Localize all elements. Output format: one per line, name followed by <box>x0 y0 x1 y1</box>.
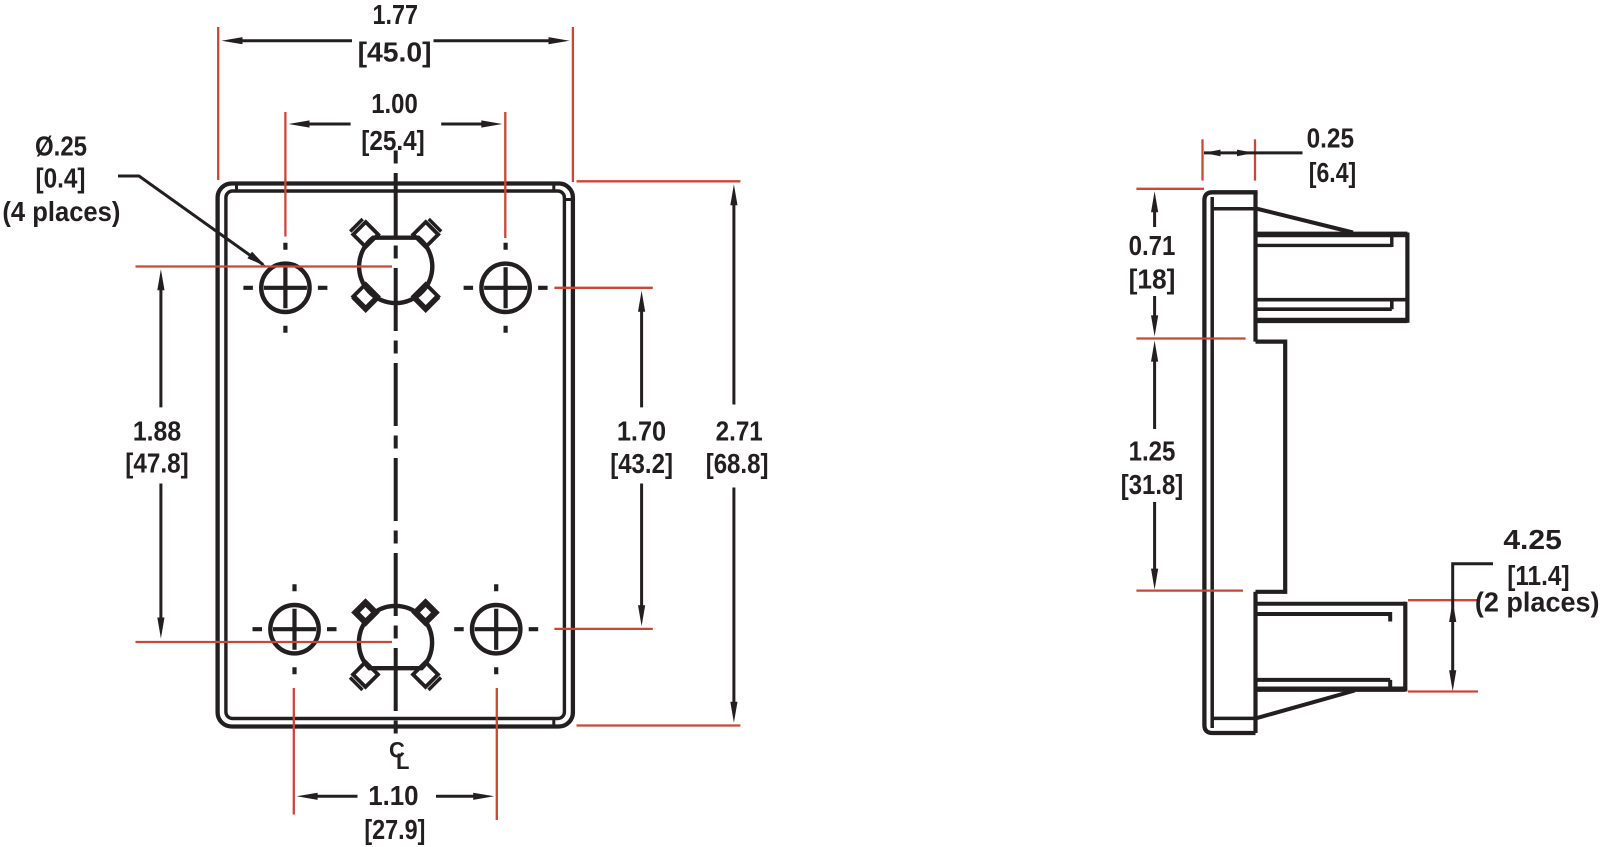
plate front view inner bend line <box>226 191 565 719</box>
red extension line 2.71 top <box>577 180 741 182</box>
svg-text:1.25: 1.25 <box>1129 435 1176 466</box>
top clip lower thin line 2 <box>1256 300 1392 310</box>
svg-text:1.00: 1.00 <box>371 88 418 119</box>
svg-text:[0.4]: [0.4] <box>36 162 86 193</box>
red extension line 1.10 right <box>496 688 498 820</box>
svg-text:0.71: 0.71 <box>1129 230 1176 261</box>
top clip thin line under band <box>1256 235 1392 247</box>
red extension line 1.00 right <box>504 112 506 238</box>
top clip thick top band <box>1256 232 1408 238</box>
dimension 4.25 leader and arrows <box>1453 564 1493 673</box>
corner hole top-right <box>481 264 529 312</box>
leader hole callout <box>118 176 263 265</box>
top clip right end edge <box>1405 233 1409 323</box>
side view plate inner face line <box>1210 197 1214 728</box>
red extension line 1.77 left <box>217 27 219 180</box>
red extension line 1.10 left <box>293 688 295 815</box>
svg-text:Ø.25: Ø.25 <box>35 130 87 161</box>
svg-text:1.70: 1.70 <box>617 415 666 446</box>
side view middle body step top <box>1256 340 1286 344</box>
big hole top tab upper-right <box>413 222 438 247</box>
big hole bottom tab lower-right <box>413 662 438 687</box>
red extension line 1.70 bottom <box>554 628 652 630</box>
corner hole bottom-left <box>270 605 318 653</box>
bend tick right-upper <box>564 198 573 201</box>
svg-text:[31.8]: [31.8] <box>1121 469 1183 500</box>
svg-text:L: L <box>396 749 409 774</box>
svg-text:(2 places): (2 places) <box>1475 587 1600 618</box>
top clip lower thin line 1 <box>1256 298 1408 302</box>
red centerline big hole bottom <box>136 641 393 643</box>
svg-text:(4 places): (4 places) <box>2 196 120 227</box>
dimension 1.77 <box>241 39 550 42</box>
svg-text:[68.8]: [68.8] <box>706 448 769 479</box>
bottom clip spring arm diagonal <box>1255 691 1355 719</box>
red extension line 1.00 left <box>284 112 286 237</box>
big hole top tab lower-left <box>353 284 378 309</box>
bottom clip top thin line <box>1256 602 1406 606</box>
dimension 1.00 <box>308 123 483 126</box>
vertical centerline <box>394 151 398 740</box>
red centerline big hole top <box>136 265 393 267</box>
dimension 0.71 <box>1153 211 1156 318</box>
red extension line side middle <box>1136 337 1245 339</box>
svg-text:[25.4]: [25.4] <box>361 125 425 156</box>
svg-text:1.88: 1.88 <box>133 415 181 446</box>
side view middle body right edge <box>1283 340 1287 594</box>
bottom clip second thin line <box>1256 612 1391 622</box>
svg-text:[18]: [18] <box>1129 264 1176 295</box>
svg-text:[43.2]: [43.2] <box>610 448 673 479</box>
svg-text:2.71: 2.71 <box>716 415 763 446</box>
side view inner flange line bottom <box>1212 717 1255 721</box>
bend tick bottom-right <box>552 719 555 727</box>
red extension line clip top <box>1408 599 1478 601</box>
top clip thick bottom band <box>1256 318 1408 323</box>
big hole bottom tab lower-left <box>353 662 378 687</box>
svg-text:0.25: 0.25 <box>1307 122 1354 153</box>
top clip spring arm diagonal <box>1256 209 1353 233</box>
red extension line 2.71 bottom <box>577 724 741 726</box>
big hole bottom tab upper-right <box>411 598 440 627</box>
side view plate right edge upper <box>1253 192 1257 341</box>
dimension 0.25 <box>1204 151 1303 154</box>
corner hole bottom-right <box>472 605 520 653</box>
bottom clip right end edge <box>1403 602 1407 692</box>
red extension line 1.70 top <box>554 287 652 289</box>
side view plate outer profile <box>1204 192 1257 733</box>
plate front view outer outline <box>218 184 573 727</box>
big hole top tab upper-left <box>353 222 378 247</box>
red extension line 1.77 right <box>572 27 574 182</box>
dimension 2.71 <box>732 204 735 704</box>
big hole bottom tab upper-left <box>351 598 380 627</box>
dimension 1.10 <box>316 795 475 798</box>
red extension line side top <box>1136 188 1204 190</box>
side view plate right edge lower <box>1253 592 1257 733</box>
svg-text:[6.4]: [6.4] <box>1309 157 1357 188</box>
corner hole top-left <box>261 264 309 312</box>
svg-text:[27.9]: [27.9] <box>364 814 425 845</box>
big hole top tab lower-right <box>413 284 438 309</box>
svg-text:1.77: 1.77 <box>373 0 419 30</box>
dimension 1.70 <box>640 310 643 607</box>
svg-text:[47.8]: [47.8] <box>125 448 188 479</box>
big hole bottom (keyed cutout) <box>359 606 432 668</box>
bottom clip lower thin line <box>1256 680 1391 688</box>
side view middle body step bottom <box>1256 590 1286 594</box>
red extension line 0.25 right <box>1254 139 1256 180</box>
red extension line side bottom <box>1136 589 1243 591</box>
bottom clip thick bottom band <box>1256 687 1406 692</box>
dimension 1.25 <box>1153 360 1156 571</box>
bend tick top-left <box>235 184 238 191</box>
side view inner flange line top <box>1212 207 1255 211</box>
svg-text:1.10: 1.10 <box>368 780 418 811</box>
red extension line 0.25 left <box>1201 139 1203 180</box>
bend tick top-right <box>552 184 555 191</box>
dimension 1.88 <box>159 289 162 620</box>
red extension line clip bottom <box>1408 690 1478 692</box>
svg-text:4.25: 4.25 <box>1503 524 1562 555</box>
svg-text:[45.0]: [45.0] <box>358 37 432 68</box>
big hole top (keyed cutout) <box>359 238 432 303</box>
